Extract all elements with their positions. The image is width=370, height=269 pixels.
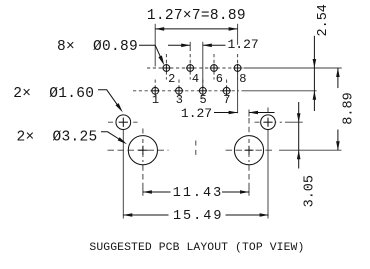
large hole dia 3.25 left (128, 136, 157, 165)
dimension 8.89 vertical (337, 68, 339, 88)
dimension 1.27 top pitch (168, 44, 190, 46)
centerline large hole left horizontal (108, 149, 169, 151)
extension line large-right column at 11.43 (248, 184, 250, 196)
extension line pin1 column top (154, 24, 156, 67)
pin 2 hole dia 0.89 (163, 65, 170, 72)
pin 8 hole dia 0.89 (234, 65, 241, 72)
dimension 15.49 medium hole spacing (123, 214, 168, 216)
svg-text:8: 8 (239, 72, 246, 86)
center axis vertical dashes (195, 141, 197, 158)
svg-text:8× Ø0.89: 8× Ø0.89 (57, 39, 138, 55)
centerline large hole right vertical above (248, 118, 250, 136)
pin 4 hole dia 0.89 (187, 65, 194, 72)
extension line pin4 column tick (189, 42, 191, 51)
centerline pin 2 vertical (165, 54, 167, 80)
centerline large hole right vertical below (248, 165, 250, 184)
centerline pin 3 vertical (178, 80, 180, 98)
svg-text:7: 7 (223, 93, 230, 107)
svg-text:4: 4 (192, 72, 199, 86)
svg-text:2× Ø3.25: 2× Ø3.25 (17, 130, 98, 146)
svg-text:2: 2 (168, 72, 175, 86)
pin 6 hole dia 0.89 (211, 65, 218, 72)
centerline bottom pin row (133, 90, 239, 92)
extension line medium row right (285, 121, 303, 123)
extension line medium-left column down (122, 130, 124, 219)
pin 3 hole dia 0.89 (176, 87, 183, 94)
centerline top pin row (147, 67, 243, 69)
svg-text:3.05: 3.05 (303, 175, 318, 207)
extension line large-left column at 11.43 (142, 184, 144, 196)
dimension 2.54 row spacing (313, 36, 315, 68)
centerline pin 7 vertical (226, 80, 228, 98)
extension line pin8 column below (237, 74, 239, 114)
extension line pin5 column (202, 42, 204, 87)
svg-text:3: 3 (176, 93, 183, 107)
svg-text:11.43: 11.43 (173, 186, 224, 201)
pin 5 hole dia 0.89 (199, 87, 206, 94)
svg-text:1.27: 1.27 (181, 106, 212, 121)
dimension 11.43 large hole spacing (143, 191, 171, 193)
svg-text:SUGGESTED PCB LAYOUT (TOP VIEW: SUGGESTED PCB LAYOUT (TOP VIEW) (89, 242, 304, 254)
large hole dia 3.25 right (234, 136, 263, 165)
centerline large hole left vertical above (142, 129, 144, 137)
svg-text:5: 5 (199, 93, 206, 107)
pin 7 hole dia 0.89 (223, 87, 230, 94)
centerline medium hole right vertical stub (267, 108, 269, 115)
svg-text:8.89: 8.89 (342, 92, 357, 124)
extension line medium-right column down (267, 130, 269, 219)
extension line large row right (279, 149, 342, 151)
svg-text:15.49: 15.49 (173, 209, 224, 224)
svg-text:2× Ø1.60: 2× Ø1.60 (13, 86, 94, 102)
centerline pin 8 vertical (237, 54, 239, 80)
medium hole dia 1.60 left (116, 115, 131, 130)
centerline large hole left vertical below (142, 165, 144, 184)
svg-text:1.27×7=8.89: 1.27×7=8.89 (147, 8, 246, 24)
svg-text:1: 1 (152, 93, 159, 107)
centerline large right vertical inside (248, 139, 250, 162)
svg-text:2.54: 2.54 (316, 4, 331, 36)
centerline pin 1 vertical (154, 80, 156, 98)
pin 1 hole dia 0.89 (152, 87, 159, 94)
centerline large left vertical inside (142, 139, 144, 162)
extension line pin8 column top (237, 24, 239, 45)
centerline pin 6 vertical (213, 54, 215, 80)
medium hole dia 1.60 right (261, 115, 276, 130)
dimension 1.27x7=8.89 top (155, 28, 237, 30)
centerline medium hole left horizontal (108, 121, 138, 123)
svg-text:1.27: 1.27 (228, 37, 259, 52)
extension line top row right (244, 67, 342, 69)
dimension 3.05 vertical (298, 102, 300, 122)
extension line large-right column tick (248, 110, 250, 117)
svg-text:6: 6 (216, 72, 223, 86)
centerline pin 5 vertical (202, 80, 204, 98)
centerline medium hole right horizontal (255, 121, 283, 123)
centerline pin 4 vertical (189, 54, 191, 80)
extension line bottom row right (242, 90, 317, 92)
centerline large hole right horizontal (226, 149, 275, 151)
